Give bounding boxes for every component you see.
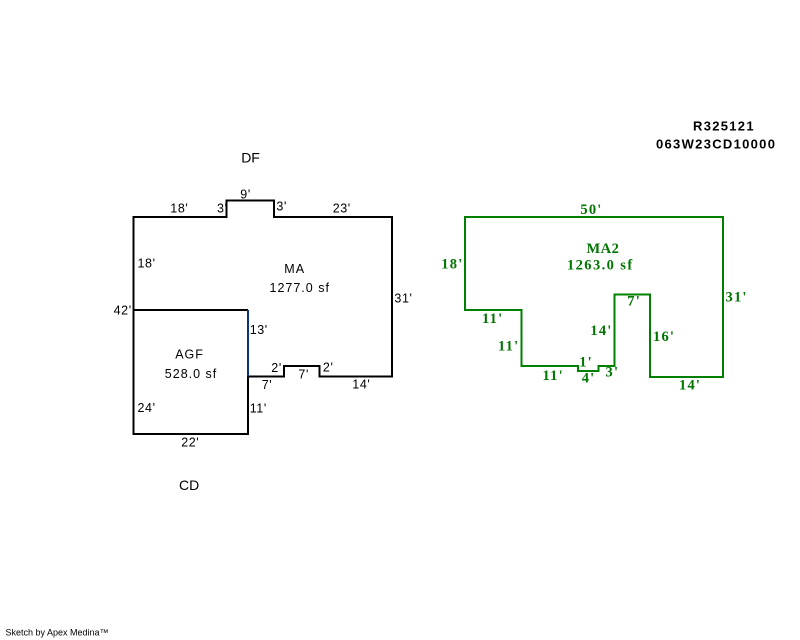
- svg-text:7': 7': [262, 378, 273, 392]
- svg-text:MA2: MA2: [587, 241, 620, 257]
- svg-text:14': 14': [352, 377, 370, 391]
- svg-text:11': 11': [482, 311, 503, 327]
- svg-text:31': 31': [394, 292, 412, 306]
- svg-text:1277.0 sf: 1277.0 sf: [270, 281, 330, 295]
- svg-text:14': 14': [679, 378, 701, 394]
- svg-text:3': 3': [276, 200, 287, 214]
- svg-text:R325121: R325121: [693, 119, 755, 134]
- svg-text:DF: DF: [241, 150, 260, 166]
- svg-text:4': 4': [582, 371, 596, 387]
- svg-text:1': 1': [579, 355, 593, 371]
- svg-text:7': 7': [298, 367, 309, 381]
- svg-text:3': 3': [606, 364, 620, 380]
- svg-text:1263.0 sf: 1263.0 sf: [567, 258, 634, 274]
- MA outline (combined outer boundary, black): [134, 201, 393, 435]
- AGF top interior wall: [134, 309, 249, 311]
- svg-text:2': 2': [271, 361, 282, 375]
- svg-text:16': 16': [653, 329, 675, 345]
- svg-text:3': 3': [217, 202, 228, 216]
- svg-text:CD: CD: [179, 477, 199, 493]
- svg-text:18': 18': [170, 202, 188, 216]
- svg-text:528.0 sf: 528.0 sf: [165, 367, 217, 381]
- svg-text:9': 9': [240, 188, 251, 202]
- svg-text:11': 11': [543, 368, 564, 384]
- svg-text:14': 14': [590, 323, 612, 339]
- svg-text:13': 13': [250, 323, 268, 337]
- svg-text:7': 7': [627, 294, 641, 310]
- svg-text:18': 18': [138, 257, 156, 271]
- svg-text:11': 11': [250, 401, 267, 415]
- svg-text:2': 2': [323, 361, 334, 375]
- svg-text:24': 24': [138, 401, 156, 415]
- svg-text:50': 50': [580, 202, 602, 218]
- svg-text:063W23CD10000: 063W23CD10000: [656, 136, 776, 151]
- svg-text:31': 31': [726, 290, 748, 306]
- svg-text:22': 22': [181, 436, 199, 450]
- svg-text:23': 23': [333, 202, 351, 216]
- MA2 outline (green): [465, 217, 723, 377]
- svg-text:18': 18': [441, 257, 463, 273]
- svg-text:11': 11': [498, 339, 519, 355]
- shared wall 13' (blue): [247, 310, 249, 377]
- svg-text:MA: MA: [284, 262, 305, 276]
- svg-text:AGF: AGF: [175, 348, 204, 362]
- svg-text:42': 42': [114, 304, 132, 318]
- svg-text:Sketch by Apex Medina™: Sketch by Apex Medina™: [6, 628, 109, 638]
